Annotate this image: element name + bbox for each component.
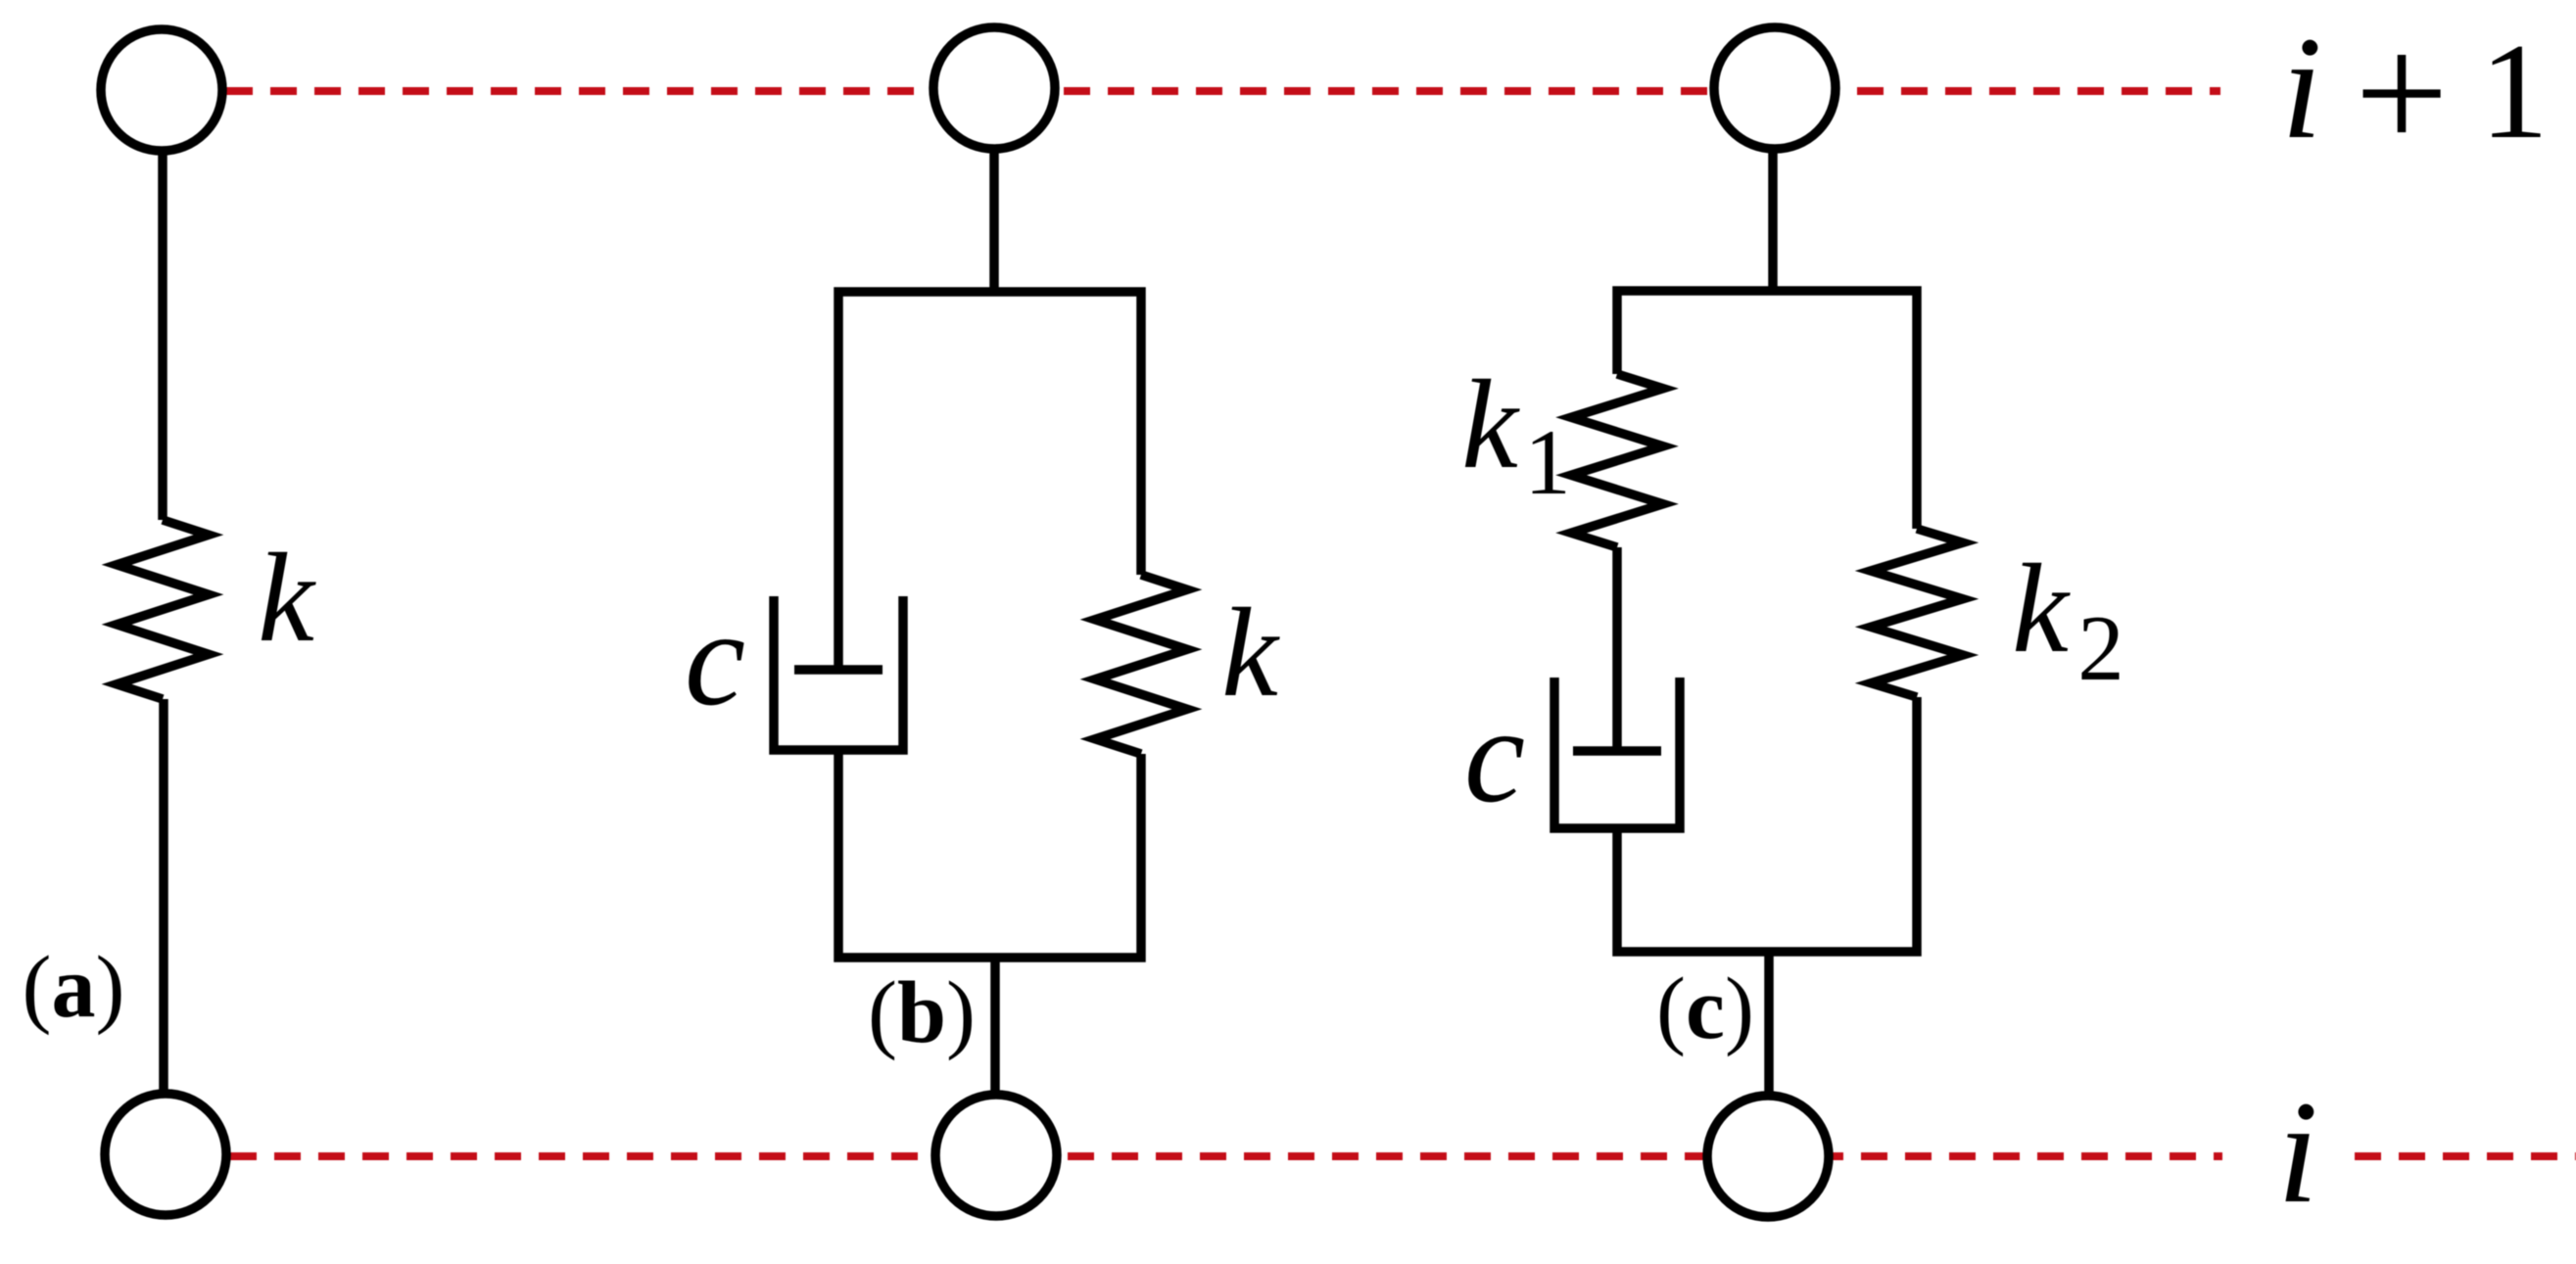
svg-text:k: k [1461,354,1520,495]
wire (b) top: node to parallel branch top bar [989,152,999,292]
damper c (model c): cylinder [1554,678,1680,828]
wire (c) bottom: bottom bar to node i [1764,952,1774,1093]
node (c) top at level i+1 [1714,27,1836,149]
svg-text:k: k [1221,583,1280,724]
wire: spring k1 to damper c piston (model c) [1612,547,1622,751]
damper c (model c): piston head [1573,746,1661,756]
spring k2 (model c) [1871,529,1963,697]
svg-text:c: c [685,583,745,734]
svg-text:i: i [2281,7,2322,169]
bottom bar and branch drops (model b) [838,750,1141,958]
level line i+1 (top red dashed) [226,87,2220,95]
top bar and branch drops (model b) [838,292,1141,670]
svg-text:+: + [2355,1,2449,185]
node (b) bottom at level i [935,1095,1057,1216]
level line i (bottom red dashed, left part) [230,1152,2222,1160]
bottom bar and branch drops (model c) [1617,697,1917,952]
spring k1 (model c) [1571,374,1663,547]
svg-text:i: i [2277,1071,2318,1234]
wire (a) top: node i+1 to spring k [158,154,167,520]
svg-text:1: 1 [2480,16,2549,167]
svg-text:1: 1 [1524,410,1571,514]
svg-text:(a): (a) [23,939,125,1036]
svg-text:k: k [2012,538,2071,679]
wire (a) bottom: spring k to node i [159,699,168,1091]
wire (c) top: node to parallel branch top bar [1768,152,1778,291]
svg-text:c: c [1464,679,1525,831]
svg-text:(c): (c) [1656,960,1754,1057]
node (b) top at level i+1 [933,27,1055,149]
svg-text:k: k [258,528,316,669]
wire (b) bottom: bottom bar to node i [990,958,1000,1093]
svg-text:2: 2 [2077,596,2124,700]
level line i (bottom red dashed, right part) [2355,1152,2576,1160]
node (c) bottom at level i [1707,1096,1829,1217]
spring k (model b) [1095,575,1187,754]
node (a) top at level i+1 [101,29,222,151]
damper c (model b): cylinder [774,596,903,750]
svg-text:(b): (b) [868,964,976,1061]
top bar and branch drops (model c) [1617,291,1917,529]
node (a) bottom at level i [105,1094,226,1215]
spring k (model a) [117,520,209,699]
damper c (model b): piston head [794,665,883,675]
